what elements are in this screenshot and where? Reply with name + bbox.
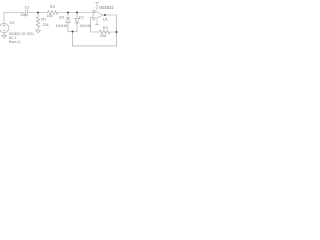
svg-text:D1: D1 [79, 15, 85, 20]
diode D1 lead from node C [76, 13, 78, 19]
svg-text:1N4148: 1N4148 [79, 24, 91, 28]
resistor R3 zigzag [48, 11, 59, 15]
wire feedback vertical [90, 18, 92, 33]
ground under R1 [36, 30, 41, 33]
diode D1 lower lead [76, 23, 78, 32]
svg-text:R2: R2 [103, 25, 109, 30]
svg-text:V4: V4 [10, 20, 16, 25]
svg-text:U1: U1 [103, 17, 109, 22]
op-amp minus input mark [94, 17, 96, 19]
wire op-amp output [103, 14, 117, 16]
V4 minus mark [3, 30, 5, 32]
node C junction dot [76, 12, 78, 14]
op-amp plus input mark [94, 12, 96, 14]
svg-text:D2: D2 [59, 15, 65, 20]
svg-text:C1: C1 [25, 5, 31, 10]
wire top-left from V4 up and right [4, 13, 25, 23]
V4 plus mark [3, 24, 5, 26]
wire feedback to R2 [91, 31, 100, 33]
diode D1 (pointing down) [75, 18, 80, 23]
node B junction dot [67, 12, 69, 14]
op-amp V+ power pin [95, 3, 98, 10]
svg-text:1N4148: 1N4148 [56, 24, 68, 28]
svg-text:22k: 22k [42, 23, 48, 27]
svg-text:33p: 33p [20, 13, 26, 17]
feedback-output junction dot [116, 31, 118, 33]
voltage source V4 circle [0, 23, 9, 32]
wire C1 to node A [28, 12, 47, 14]
svg-text:R1: R1 [41, 16, 47, 21]
wire R3 to op-amp input [58, 12, 93, 14]
diode D2 (pointing up) [66, 18, 71, 23]
wire from diode junction down to bottom rail [72, 32, 74, 46]
wire R2 to output line [110, 31, 117, 33]
node A junction dot [37, 12, 39, 14]
output vertical wire [116, 15, 118, 46]
svg-text:NE5532: NE5532 [99, 5, 115, 10]
diode D2 lower lead [67, 23, 69, 32]
wire inverting input stub [91, 17, 94, 19]
bottom rail wire [73, 45, 117, 47]
ground under V4 [2, 33, 7, 38]
svg-text:20k: 20k [100, 34, 106, 38]
capacitor C1 [25, 10, 27, 16]
op-amp V- power pin [95, 20, 98, 25]
svg-text:R3: R3 [50, 4, 56, 9]
diode D2 lead from node B [67, 13, 69, 19]
svg-text:10k: 10k [46, 14, 52, 18]
resistor R2 zigzag [100, 30, 111, 34]
wire joining diode bottoms [68, 31, 77, 33]
diode junction dot [72, 31, 74, 33]
output pin junction dot [104, 14, 106, 16]
svg-text:Rser=1: Rser=1 [9, 40, 21, 44]
resistor R1 vertical zigzag [36, 13, 40, 31]
op-amp U1 triangle [93, 10, 103, 20]
